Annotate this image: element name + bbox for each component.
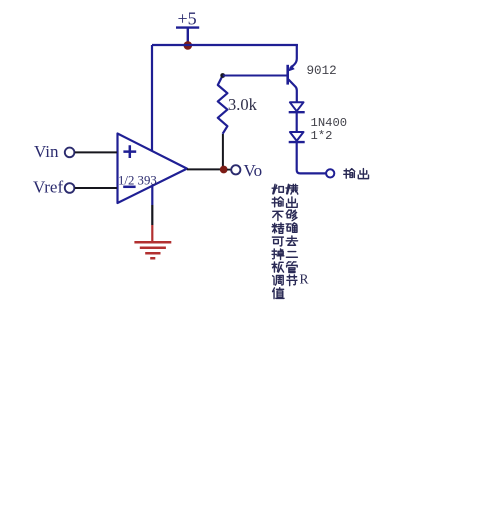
wire node to Vo terminal (227, 169, 231, 171)
resistor R1 zigzag (218, 76, 228, 134)
junction dot J1 on +5 rail (184, 41, 193, 50)
transistor Q1 base bar (286, 65, 289, 85)
wire V- (red segment) (151, 225, 153, 241)
wire D1 to D2 (296, 112, 298, 132)
wire +5 rail (152, 44, 298, 46)
diode D1 cathode bar (289, 111, 305, 113)
transistor Q1 emitter arrowhead (PNP) (288, 66, 294, 72)
svg-text:+5: +5 (178, 9, 197, 29)
svg-text:3.0k: 3.0k (228, 95, 258, 114)
op-amp U1 1/2 393 triangle (118, 134, 188, 204)
terminal Vo circle (231, 165, 240, 174)
diode D2 triangle (290, 132, 304, 141)
wire V+ supply down to op-amp (151, 45, 153, 151)
svg-text:1N400: 1N400 (311, 116, 348, 130)
transistor Q1 emitter wire from +5 (290, 44, 297, 68)
note text column (Chinese annotation) (272, 184, 283, 193)
power +5 bar symbol (176, 28, 199, 45)
wire Vin to op-amp (75, 151, 117, 153)
svg-text:Vo: Vo (244, 161, 263, 180)
terminal Vin circle (65, 148, 75, 158)
svg-text:Vref: Vref (33, 178, 63, 197)
ground symbol (134, 242, 171, 258)
diode D2 cathode bar (289, 141, 305, 143)
op-amp inverting - symbol (123, 186, 135, 189)
wire op-amp V- pin (blue segment) (151, 186, 153, 205)
wire V- (black segment) (151, 205, 153, 225)
svg-text:R: R (300, 272, 309, 287)
terminal output circle (326, 169, 334, 177)
svg-text:9012: 9012 (307, 64, 337, 78)
svg-text:1/2 393: 1/2 393 (118, 174, 157, 188)
junction dot Vo node (220, 166, 228, 174)
transistor Q1 collector (288, 79, 296, 102)
wire Vref to op-amp (75, 187, 117, 189)
wire resistor top to transistor base (223, 75, 287, 77)
diode D1 triangle (290, 102, 304, 111)
wire node up to resistor bottom (222, 134, 224, 169)
svg-text:Vin: Vin (34, 142, 59, 161)
wire D2 down and right to output terminal (297, 142, 326, 173)
op-amp non-inverting + symbol (123, 145, 136, 158)
label shuchu (output) (344, 169, 355, 179)
wire op-amp output (187, 168, 224, 170)
svg-text:1*2: 1*2 (311, 129, 333, 143)
terminal Vref circle (65, 183, 75, 193)
resistor top corner dot (220, 73, 225, 78)
